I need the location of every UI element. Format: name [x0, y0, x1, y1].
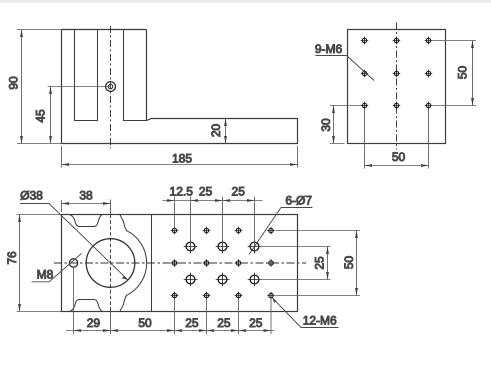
dimension 76: [17, 215, 62, 312]
svg-text:76: 76: [5, 251, 19, 265]
tapped hole M6 p32: [203, 292, 211, 300]
dimension 30 (left, vertical): [330, 106, 361, 144]
tapped hole M6 p34: [267, 292, 275, 300]
right dimension 50: [276, 231, 361, 296]
svg-text:9-M6: 9-M6: [315, 42, 343, 56]
clamp bottom notch: [69, 300, 102, 312]
tapped hole M6 b12: [393, 37, 401, 45]
tapped hole M6 p11: [171, 227, 179, 235]
svg-text:Ø38: Ø38: [20, 188, 43, 202]
svg-text:20: 20: [209, 124, 223, 138]
svg-text:25: 25: [185, 316, 199, 330]
tapped hole M6 b21: [361, 70, 369, 78]
dimension 185: [62, 146, 298, 168]
svg-text:50: 50: [392, 150, 406, 164]
dimension 90: [17, 30, 62, 144]
svg-text:38: 38: [79, 188, 93, 202]
tapped hole M6 b33: [425, 102, 433, 110]
svg-text:90: 90: [7, 76, 21, 90]
tapped hole M6 p31: [171, 292, 179, 300]
M8 tapped hole: [69, 259, 77, 267]
clearance hole &#216;7 q23: [248, 273, 262, 287]
svg-text:25: 25: [313, 256, 327, 270]
clearance hole &#216;7 q12: [216, 240, 230, 254]
dimension 50 (right, vertical): [432, 41, 477, 106]
extension line from hole for 45 dim: [48, 86, 111, 88]
svg-text:25: 25: [249, 316, 263, 330]
tapped hole M6 b13: [425, 37, 433, 45]
base plate outline: [62, 215, 298, 312]
clearance hole &#216;7 q22: [216, 273, 230, 287]
tapped hole M6 p12: [203, 227, 211, 235]
svg-text:50: 50: [138, 316, 152, 330]
side view: wall hole symbol: [106, 82, 116, 92]
right dimension 25: [259, 247, 331, 280]
tapped hole M6 p14: [267, 227, 275, 235]
svg-text:50: 50: [456, 66, 470, 80]
svg-text:50: 50: [342, 256, 356, 270]
svg-text:29: 29: [87, 316, 101, 330]
svg-text:25: 25: [199, 184, 213, 198]
tapped hole M6 b32: [393, 102, 401, 110]
tapped hole M6 p21: [171, 259, 179, 267]
horizontal centerline: [54, 262, 306, 264]
back plate vertical centerline: [396, 23, 398, 150]
dimension 45: [50, 87, 52, 144]
svg-text:25: 25: [217, 316, 231, 330]
svg-text:6-Ø7: 6-Ø7: [285, 193, 312, 207]
tapped hole M6 p24: [267, 259, 275, 267]
side view: L-bracket outline: [62, 30, 298, 144]
bottom dimensions 29 / 50 / 25 / 25 / 25: [66, 268, 274, 335]
clearance hole &#216;7 q11: [184, 240, 198, 254]
svg-text:12-M6: 12-M6: [303, 314, 337, 328]
clearance hole &#216;7 q21: [184, 273, 198, 287]
clamp vertical centerline (solid above/below, dashed inside): [110, 200, 112, 335]
tapped hole M6 b22: [393, 70, 401, 78]
side view: slot A walls: [75, 30, 98, 121]
tapped hole M6 p22: [203, 259, 211, 267]
clearance hole &#216;7 q13: [248, 240, 262, 254]
tapped hole M6 p23: [235, 259, 243, 267]
top grid dimensions 12.5 / 25 / 25: [163, 197, 263, 247]
svg-text:185: 185: [172, 151, 192, 165]
dimension 50 (bottom): [365, 109, 429, 169]
tapped hole M6 b31: [361, 102, 369, 110]
dimension 20: [225, 119, 227, 144]
svg-text:45: 45: [34, 109, 48, 123]
tapped hole M6 p33: [235, 292, 243, 300]
svg-text:12.5: 12.5: [170, 184, 194, 198]
tapped hole M6 p13: [235, 227, 243, 235]
tapped hole M6 b23: [425, 70, 433, 78]
bore circle &#216;38: [86, 239, 135, 288]
side view: vertical centerline: [110, 26, 112, 149]
svg-text:M8: M8: [37, 267, 54, 281]
side view: slot B walls: [124, 30, 147, 121]
dimension 38: [62, 200, 111, 212]
tapped hole M6 b11: [361, 37, 369, 45]
clamp right lobe: [120, 215, 147, 312]
clamp top notch: [69, 215, 102, 227]
back plate outline: [348, 30, 446, 144]
svg-text:25: 25: [232, 184, 246, 198]
clamp block right edge: [151, 215, 153, 312]
svg-text:30: 30: [319, 118, 333, 132]
